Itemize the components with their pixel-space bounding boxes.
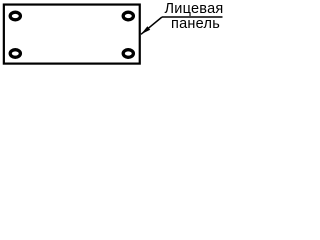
hole bottom-left: [10, 50, 20, 58]
svg-text:Лицевая: Лицевая: [164, 1, 223, 17]
arrowhead: [141, 26, 150, 34]
hole bottom-right: [123, 50, 133, 58]
hole top-right: [123, 12, 133, 20]
leader shelf: [162, 16, 223, 18]
hole top-left: [10, 12, 20, 20]
front panel outline: [4, 5, 140, 64]
leader line: [141, 17, 162, 34]
svg-text:панель: панель: [171, 16, 220, 32]
